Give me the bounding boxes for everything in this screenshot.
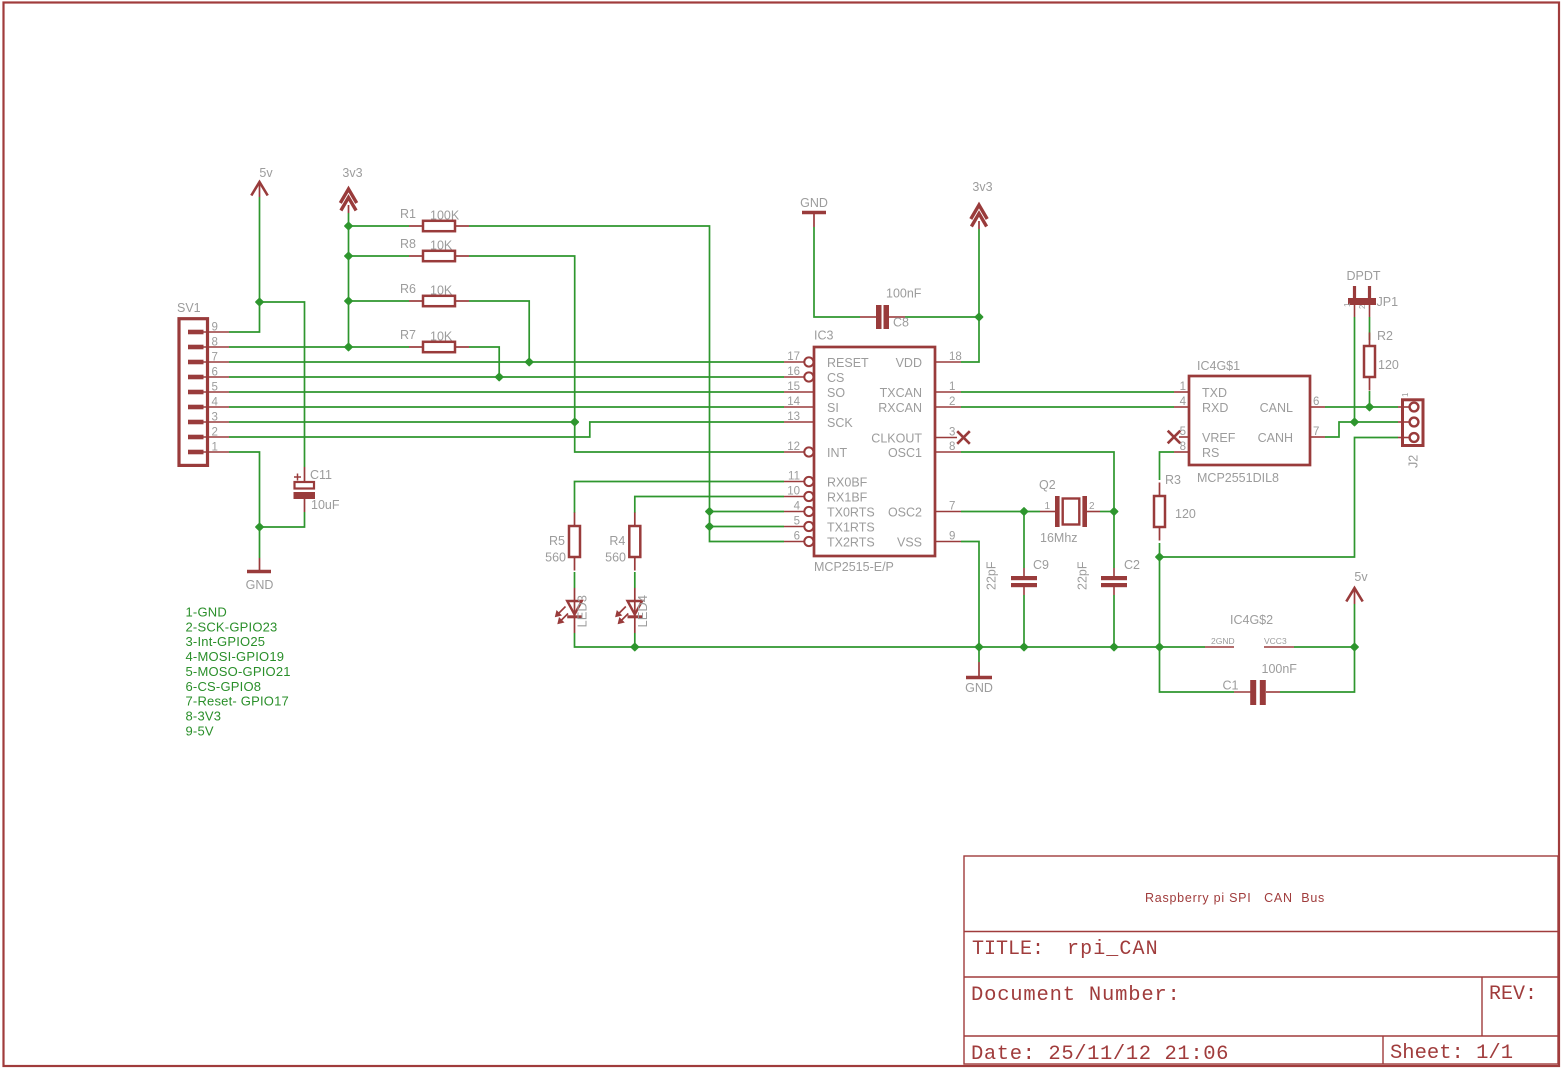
svg-text:GND: GND: [246, 578, 274, 592]
svg-text:REV:: REV:: [1489, 983, 1537, 1006]
svg-text:OSC1: OSC1: [888, 446, 922, 460]
svg-text:1: 1: [949, 381, 955, 393]
svg-text:VSS: VSS: [897, 536, 922, 550]
svg-text:5v: 5v: [1354, 570, 1368, 584]
svg-text:1: 1: [1343, 302, 1352, 307]
svg-text:560: 560: [605, 551, 626, 565]
svg-text:16Mhz: 16Mhz: [1040, 531, 1078, 545]
svg-text:RESET: RESET: [827, 356, 869, 370]
svg-text:SV1: SV1: [177, 301, 201, 315]
svg-text:100nF: 100nF: [1262, 662, 1298, 676]
svg-text:OSC2: OSC2: [888, 506, 922, 520]
svg-text:5-MOSO-GPIO21: 5-MOSO-GPIO21: [186, 664, 291, 679]
svg-text:TX1RTS: TX1RTS: [827, 521, 875, 535]
svg-text:TX2RTS: TX2RTS: [827, 536, 875, 550]
svg-text:C1: C1: [1223, 679, 1239, 693]
svg-text:C9: C9: [1033, 558, 1049, 572]
svg-text:MCP2551DIL8: MCP2551DIL8: [1197, 471, 1279, 485]
svg-text:2: 2: [949, 396, 955, 408]
svg-text:IC4G$1: IC4G$1: [1197, 359, 1240, 373]
svg-text:2: 2: [212, 427, 218, 439]
svg-text:3v3: 3v3: [972, 180, 992, 194]
svg-text:8: 8: [949, 441, 955, 453]
svg-text:10K: 10K: [430, 330, 453, 344]
svg-text:CANH: CANH: [1258, 431, 1293, 445]
svg-text:RX1BF: RX1BF: [827, 491, 868, 505]
svg-text:R2: R2: [1377, 329, 1393, 343]
svg-text:13: 13: [787, 411, 800, 423]
svg-text:rpi_CAN: rpi_CAN: [1067, 938, 1159, 961]
svg-text:5: 5: [794, 516, 800, 528]
svg-text:9-5V: 9-5V: [186, 723, 214, 738]
svg-text:6: 6: [1313, 396, 1319, 408]
svg-text:SO: SO: [827, 386, 845, 400]
svg-text:4-MOSI-GPIO19: 4-MOSI-GPIO19: [186, 649, 285, 664]
svg-text:VDD: VDD: [896, 356, 922, 370]
svg-text:16: 16: [787, 366, 800, 378]
svg-text:3v3: 3v3: [342, 166, 362, 180]
svg-text:4: 4: [794, 501, 801, 513]
svg-text:TITLE:: TITLE:: [972, 938, 1044, 961]
svg-text:TX0RTS: TX0RTS: [827, 506, 875, 520]
svg-text:R3: R3: [1165, 473, 1181, 487]
svg-text:1: 1: [1044, 501, 1050, 512]
svg-text:17: 17: [787, 351, 800, 363]
svg-text:15: 15: [787, 381, 800, 393]
svg-text:INT: INT: [827, 446, 848, 460]
svg-text:GND: GND: [965, 681, 993, 695]
svg-text:8-3V3: 8-3V3: [186, 708, 222, 723]
svg-text:22pF: 22pF: [1076, 561, 1090, 590]
svg-text:2: 2: [1358, 304, 1367, 309]
svg-text:LED4: LED4: [635, 595, 650, 628]
svg-text:Raspberry pi SPI CAN Bus: Raspberry pi SPI CAN Bus: [1145, 891, 1325, 905]
svg-text:10K: 10K: [430, 284, 453, 298]
svg-text:Document Number:: Document Number:: [971, 984, 1181, 1007]
svg-text:R1: R1: [400, 207, 416, 221]
svg-text:12: 12: [787, 441, 800, 453]
svg-text:Q2: Q2: [1039, 478, 1056, 492]
svg-text:7-Reset- GPIO17: 7-Reset- GPIO17: [186, 694, 289, 709]
svg-text:R4: R4: [609, 534, 625, 548]
svg-text:9: 9: [949, 531, 955, 543]
svg-text:7: 7: [949, 501, 955, 513]
svg-text:R8: R8: [400, 237, 416, 251]
svg-text:CS: CS: [827, 371, 844, 385]
svg-text:1-GND: 1-GND: [186, 605, 227, 620]
svg-text:JP1: JP1: [1377, 295, 1399, 309]
svg-text:100K: 100K: [430, 209, 460, 223]
svg-text:J2: J2: [1407, 455, 1421, 468]
svg-text:2: 2: [1089, 501, 1095, 512]
svg-text:1: 1: [1180, 381, 1186, 393]
svg-text:TXD: TXD: [1202, 386, 1227, 400]
svg-text:SCK: SCK: [827, 416, 853, 430]
svg-text:GND: GND: [800, 196, 828, 210]
svg-text:10K: 10K: [430, 239, 453, 253]
svg-text:18: 18: [949, 351, 962, 363]
svg-text:22pF: 22pF: [985, 561, 999, 590]
svg-text:RX0BF: RX0BF: [827, 476, 868, 490]
svg-text:RS: RS: [1202, 446, 1219, 460]
svg-text:120: 120: [1175, 507, 1196, 521]
svg-text:2-SCK-GPIO23: 2-SCK-GPIO23: [186, 619, 278, 634]
svg-text:14: 14: [787, 396, 800, 408]
svg-text:DPDT: DPDT: [1347, 269, 1381, 283]
svg-text:7: 7: [212, 352, 218, 364]
svg-text:VCC3: VCC3: [1264, 636, 1287, 646]
svg-text:100nF: 100nF: [886, 287, 922, 301]
svg-text:8: 8: [1180, 441, 1186, 453]
svg-text:LED3: LED3: [575, 595, 590, 628]
svg-text:C8: C8: [893, 316, 909, 330]
svg-text:9: 9: [212, 322, 218, 334]
svg-text:SI: SI: [827, 401, 839, 415]
svg-text:MCP2515-E/P: MCP2515-E/P: [814, 560, 894, 574]
svg-text:CLKOUT: CLKOUT: [871, 432, 922, 446]
svg-text:TXCAN: TXCAN: [880, 386, 922, 400]
svg-text:5v: 5v: [259, 166, 273, 180]
svg-text:Sheet: 1/1: Sheet: 1/1: [1390, 1042, 1513, 1065]
svg-text:R7: R7: [400, 328, 416, 342]
svg-text:5: 5: [212, 382, 218, 394]
svg-text:R6: R6: [400, 282, 416, 296]
svg-text:3-Int-GPIO25: 3-Int-GPIO25: [186, 634, 266, 649]
svg-text:2GND: 2GND: [1211, 636, 1235, 646]
svg-text:4: 4: [1180, 396, 1187, 408]
svg-text:6: 6: [794, 531, 800, 543]
svg-text:6: 6: [212, 367, 218, 379]
svg-text:IC4G$2: IC4G$2: [1230, 613, 1273, 627]
svg-text:6-CS-GPIO8: 6-CS-GPIO8: [186, 679, 262, 694]
svg-text:R5: R5: [549, 534, 565, 548]
svg-text:11: 11: [788, 471, 800, 483]
svg-text:5: 5: [1180, 426, 1186, 438]
svg-text:1: 1: [212, 442, 218, 454]
svg-text:RXCAN: RXCAN: [878, 401, 922, 415]
svg-text:C2: C2: [1124, 558, 1140, 572]
svg-text:3: 3: [949, 427, 955, 439]
svg-text:IC3: IC3: [814, 329, 834, 343]
svg-text:Date: 25/11/12 21:06: Date: 25/11/12 21:06: [971, 1043, 1229, 1066]
svg-text:1: 1: [1401, 392, 1410, 397]
svg-text:VREF: VREF: [1202, 431, 1236, 445]
svg-text:4: 4: [212, 397, 219, 409]
svg-text:10: 10: [787, 486, 800, 498]
svg-text:RXD: RXD: [1202, 401, 1228, 415]
svg-text:C11: C11: [310, 468, 332, 482]
svg-text:7: 7: [1313, 426, 1319, 438]
svg-text:560: 560: [545, 551, 566, 565]
svg-text:8: 8: [212, 337, 218, 349]
svg-text:3: 3: [212, 412, 218, 424]
svg-text:120: 120: [1378, 358, 1399, 372]
svg-text:10uF: 10uF: [311, 498, 340, 512]
svg-text:CANL: CANL: [1260, 401, 1293, 415]
